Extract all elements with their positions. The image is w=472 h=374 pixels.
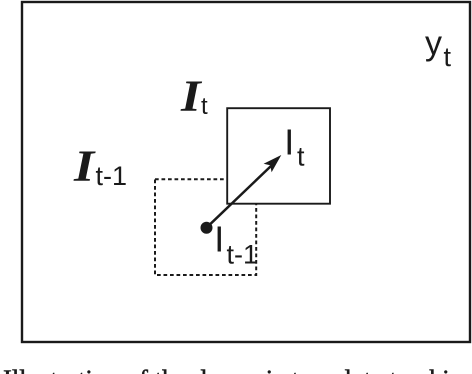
arrow head: [264, 155, 282, 172]
svg-text:I: I: [214, 219, 224, 260]
svg-text:y: y: [425, 25, 442, 63]
dashed box I_{t-1} (template at t-1): [155, 179, 256, 275]
svg-text:t-1: t-1: [227, 240, 259, 270]
label italic I_t (above box): [180, 72, 208, 120]
node dot l_{t-1}: [201, 222, 213, 234]
label y_t: [425, 25, 452, 72]
label l_t (inside solid box): [284, 122, 305, 172]
svg-text:I: I: [73, 142, 97, 190]
svg-text:t: t: [444, 42, 452, 72]
solid box I_t (template at t, white fill covers dashed corner): [227, 108, 330, 204]
label l_{t-1} (at dot): [214, 219, 258, 270]
svg-text:Illustration of the dynamic te: Illustration of the dynamic template tra…: [3, 364, 472, 374]
wire arrow shaft (motion vector from l_{t-1} to l_t): [207, 166, 272, 228]
svg-text:t: t: [201, 93, 208, 120]
svg-text:I: I: [284, 122, 294, 163]
svg-text:t-1: t-1: [96, 161, 128, 191]
svg-text:t: t: [297, 142, 305, 172]
svg-text:I: I: [180, 72, 202, 120]
label italic I_{t-1} (left of dashed box): [73, 142, 127, 191]
